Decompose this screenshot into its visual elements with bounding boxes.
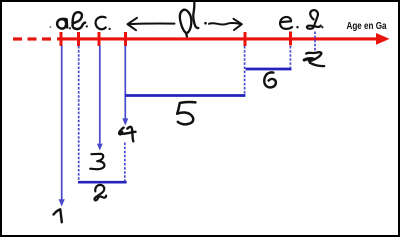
bracket 6 horizontal: [246, 68, 292, 71]
period after d: [204, 22, 207, 25]
period after e: [296, 26, 298, 28]
tick e: [289, 32, 292, 46]
marker line 2 left (dashed blue): [78, 46, 80, 181]
label 4: [119, 127, 135, 141]
marker line 1 (solid blue with arrow): [61, 46, 63, 200]
marker line 4 (solid blue with arrow): [124, 46, 126, 119]
label d: [180, 1, 198, 37]
tick d-left: [124, 32, 127, 46]
marker line f (short dashed blue): [314, 32, 316, 51]
period after f: [321, 26, 323, 28]
label c: [96, 17, 106, 29]
svg-text:Age en Ga: Age en Ga: [347, 21, 388, 32]
label 3: [90, 154, 104, 169]
stray ink dot: [50, 26, 52, 28]
tick b: [77, 32, 80, 46]
label f: [307, 10, 321, 29]
label 7: [304, 52, 324, 66]
span arrow left (d interval): [128, 18, 175, 30]
bracket 5 right (dashed blue): [244, 46, 246, 94]
period after c: [109, 28, 111, 30]
timeline arrowhead: [376, 33, 390, 45]
tick c: [98, 32, 101, 46]
span arrow right (d interval): [209, 19, 242, 30]
bracket 2 right (dashed blue): [124, 143, 126, 182]
timeline axis: red solid line: [57, 37, 377, 40]
label 1: [54, 209, 62, 222]
label e: [280, 17, 292, 29]
bracket 2 horizontal: [78, 181, 127, 184]
label 2: [94, 185, 106, 200]
label a: [57, 19, 67, 29]
timeline axis: red dashed left segment: [13, 37, 51, 40]
label b: [73, 12, 86, 29]
marker line 3 (solid blue with arrow): [99, 46, 101, 144]
period after a: [69, 27, 71, 29]
tick d-right: [244, 32, 247, 46]
period after b: [86, 25, 88, 27]
bracket 6 right (dashed blue): [289, 46, 291, 68]
tick a: [60, 32, 63, 46]
label 5: [177, 102, 195, 124]
label 6: [264, 72, 276, 87]
bracket 5 horizontal: [125, 94, 246, 97]
